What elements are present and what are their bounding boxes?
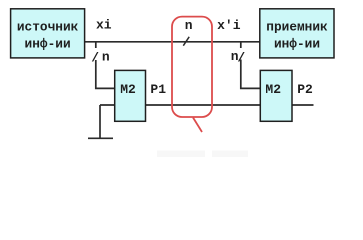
block: источник инф-ии (information source) xyxy=(11,9,85,58)
ground xyxy=(99,105,101,138)
svg-text:P1: P1 xyxy=(150,82,166,97)
block: M2 right (demodulator) xyxy=(260,70,292,121)
svg-text:/: / xyxy=(237,50,245,65)
wire: lower horizontal line through both M2 blocks xyxy=(100,104,314,106)
faint cropped caption remnant right xyxy=(212,151,248,158)
red callout oval around channel xyxy=(172,17,212,117)
faint cropped caption remnant left xyxy=(157,151,205,158)
bus width slash on main wire xyxy=(183,37,189,46)
svg-text:n: n xyxy=(185,18,193,33)
block: приемник инф-ии (information receiver) xyxy=(260,9,334,58)
svg-text:n: n xyxy=(102,49,110,64)
wire: left branch tick from main bus xyxy=(95,42,97,48)
wire: right branch vertical to M2 xyxy=(241,60,261,89)
svg-text:инф-ии: инф-ии xyxy=(25,37,71,52)
svg-text:M2: M2 xyxy=(265,82,281,97)
wire: left branch vertical to M2 xyxy=(96,60,116,88)
svg-text:P2: P2 xyxy=(297,82,313,97)
svg-text:источник: источник xyxy=(17,20,79,35)
wire: right branch tick from main bus xyxy=(240,42,242,48)
wire: main bus from source to receiver xyxy=(84,41,260,43)
svg-text:инф-ии: инф-ии xyxy=(274,37,320,52)
red callout tail xyxy=(193,118,202,133)
svg-text:/: / xyxy=(91,50,99,65)
svg-text:приемник: приемник xyxy=(266,20,328,35)
svg-text:xi: xi xyxy=(96,18,112,33)
svg-text:M2: M2 xyxy=(120,82,136,97)
block: M2 left (modulator) xyxy=(115,70,146,121)
svg-text:x'i: x'i xyxy=(217,18,241,33)
